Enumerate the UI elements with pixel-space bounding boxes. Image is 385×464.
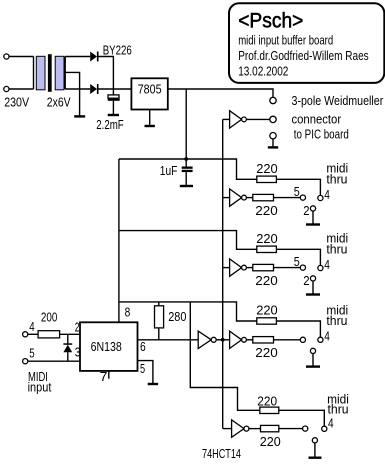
- svg-text:7: 7: [100, 369, 108, 384]
- wire block2 pin5: [274, 267, 301, 269]
- svg-text:2x6V: 2x6V: [47, 94, 71, 109]
- pin circle 2 block1: [310, 206, 315, 211]
- inverter U1E: [230, 331, 253, 348]
- svg-text:3-pole Weidmueller: 3-pole Weidmueller: [292, 93, 384, 108]
- node inverter junction dot: [221, 338, 225, 342]
- wire 7805 ground pin: [149, 110, 151, 126]
- wire +5V branch to block4: [190, 302, 259, 410]
- wire center tap: [65, 72, 79, 115]
- svg-text:6: 6: [140, 339, 146, 354]
- svg-text:5: 5: [294, 254, 300, 269]
- svg-text:4: 4: [29, 319, 34, 334]
- signal bus vertical: [222, 119, 224, 428]
- svg-text:input: input: [28, 380, 52, 395]
- transformer T1 secondary winding: [55, 56, 64, 90]
- ground block3: [306, 365, 320, 367]
- svg-text:midi input buffer board: midi input buffer board: [238, 33, 333, 48]
- connector pin signal circle: [270, 116, 276, 122]
- diode D3 protection: [63, 334, 72, 361]
- resistor R7 220 block3 bottom: [253, 337, 274, 343]
- regulator U2 7805 box: [131, 78, 167, 109]
- svg-text:2: 2: [303, 203, 309, 218]
- ground 7805: [145, 125, 155, 127]
- node +5V junction dot: [184, 157, 188, 161]
- inverter U1F: [223, 420, 261, 437]
- wire secondary bottom to diode D2: [65, 88, 90, 90]
- diode D2 BY226 bottom: [90, 84, 98, 94]
- wire pin7 stub: [108, 371, 110, 379]
- inverter U1B: [223, 189, 253, 206]
- svg-text:5: 5: [29, 346, 34, 361]
- pin circle 5 block1: [300, 195, 305, 200]
- ground capacitor C1: [108, 114, 119, 116]
- pin circle 2 block2: [310, 276, 315, 281]
- mains input terminal bottom: [4, 86, 9, 91]
- pin circle 4 block1: [318, 195, 323, 200]
- wire secondary side vertical: [64, 57, 66, 90]
- +5V left bus vertical: [118, 159, 120, 322]
- svg-text:220: 220: [256, 231, 278, 246]
- wire +5V rail 7805 output to connector: [168, 89, 273, 97]
- wire midi pin4 to R1: [28, 333, 38, 335]
- wire D2 output to 7805 input: [99, 88, 132, 90]
- title box: [229, 3, 384, 83]
- svg-text:8: 8: [125, 305, 131, 320]
- wire 7805 output drop to +5V node: [185, 89, 187, 159]
- svg-text:<Psch>: <Psch>: [238, 8, 303, 32]
- wire pin5 to gnd: [138, 361, 153, 384]
- capacitor C2 1uF: [182, 159, 193, 185]
- ground block2: [306, 293, 320, 295]
- wire secondary top to diode D1: [65, 56, 90, 58]
- ground connector: [268, 146, 278, 148]
- svg-text:74HCT14: 74HCT14: [202, 446, 241, 461]
- transformer T1 primary winding: [36, 56, 45, 90]
- optocoupler U3 6N138 box: [80, 322, 138, 371]
- svg-text:4: 4: [324, 257, 330, 272]
- wire mains bottom: [9, 88, 34, 90]
- resistor R5 220 block2 bottom: [253, 264, 274, 270]
- resistor R2 220 block1 top: [257, 176, 277, 182]
- ground center tap: [74, 115, 85, 117]
- inverter U1C: [223, 259, 253, 276]
- wire block3 gnd: [312, 354, 314, 367]
- wire block2 gnd: [312, 281, 314, 294]
- ground block4: [309, 457, 322, 459]
- svg-text:5: 5: [294, 184, 300, 199]
- svg-text:2.2mF: 2.2mF: [96, 117, 123, 132]
- wire block3 pin5: [274, 339, 301, 341]
- wire block1 pin4: [276, 179, 320, 195]
- ground pin5: [148, 383, 158, 385]
- svg-text:connector: connector: [292, 111, 342, 126]
- svg-text:2: 2: [75, 320, 80, 335]
- MIDI input pin 4 circle: [23, 332, 28, 337]
- svg-text:220: 220: [256, 161, 278, 176]
- resistor R4 220 block2 top: [257, 246, 277, 252]
- wire diode D1 output corner down: [99, 57, 114, 90]
- pin circle 2 block3: [310, 348, 315, 353]
- wire midi pin5 to 6N138 pin3: [28, 360, 80, 362]
- svg-text:5: 5: [140, 361, 145, 376]
- wire +5V feed block1: [119, 159, 257, 179]
- wire connector gnd: [272, 139, 274, 147]
- resistor R1 200: [38, 331, 60, 338]
- svg-text:4: 4: [328, 416, 334, 431]
- svg-text:thru: thru: [326, 172, 347, 187]
- svg-text:4: 4: [324, 329, 330, 344]
- pin circle 5 block4: [303, 426, 308, 431]
- resistor R3 220 block1 bottom: [253, 194, 274, 200]
- svg-text:230V: 230V: [4, 94, 29, 109]
- svg-text:200: 200: [41, 310, 57, 325]
- wire block2 pin4: [276, 249, 320, 265]
- wire +5V feed block3: [119, 302, 257, 321]
- svg-text:thru: thru: [328, 402, 349, 417]
- resistor R10 220 block4 bottom: [261, 425, 279, 431]
- pin circle 5 block2: [300, 265, 305, 270]
- ground capacitor C2: [180, 185, 193, 187]
- svg-text:1uF: 1uF: [160, 163, 178, 178]
- connector pin +5V circle: [270, 97, 276, 103]
- mains input terminal top: [4, 54, 9, 59]
- svg-text:7805: 7805: [138, 82, 162, 97]
- pin circle 4 block4: [322, 426, 327, 431]
- diode D1 BY226 top: [90, 52, 98, 62]
- resistor R6 220 block3 top: [257, 318, 277, 324]
- svg-text:to PIC board: to PIC board: [294, 127, 349, 142]
- MIDI input pin 5 circle: [23, 359, 28, 364]
- ground block1: [306, 223, 320, 225]
- wire block1 gnd: [312, 211, 314, 224]
- svg-text:Prof.dr.Godfried-Willem Raes: Prof.dr.Godfried-Willem Raes: [238, 48, 369, 63]
- svg-text:thru: thru: [326, 242, 347, 257]
- capacitor C1 2.2mF: [108, 89, 120, 114]
- wire primary side vertical: [33, 57, 35, 90]
- svg-text:220: 220: [255, 203, 277, 218]
- svg-text:13.02.2002: 13.02.2002: [238, 63, 288, 78]
- svg-text:220: 220: [255, 345, 277, 360]
- connector pin gnd circle: [270, 133, 276, 139]
- wire pin6 to inverter: [138, 339, 199, 341]
- wire R1 to 6N138 pin2: [60, 333, 80, 335]
- svg-text:220: 220: [256, 303, 278, 318]
- wire +5V feed block2: [119, 231, 257, 250]
- wire block4 pin5: [279, 428, 303, 430]
- pin circle 2 block4: [312, 438, 317, 443]
- inverter U1A: [223, 111, 270, 128]
- svg-text:4: 4: [324, 187, 330, 202]
- pin circle 4 block3: [318, 337, 323, 342]
- svg-text:6N138: 6N138: [91, 339, 122, 354]
- svg-text:BY226: BY226: [103, 42, 132, 57]
- pin circle 4 block2: [318, 265, 323, 270]
- svg-text:280: 280: [168, 309, 186, 324]
- wire mains top: [9, 56, 34, 58]
- svg-text:220: 220: [255, 273, 277, 288]
- resistor R9 220 block4 top: [260, 407, 279, 413]
- pin circle 5 block3: [300, 337, 305, 342]
- svg-text:220: 220: [260, 434, 281, 449]
- wire block4 gnd: [314, 443, 316, 457]
- svg-text:2: 2: [303, 273, 309, 288]
- inverter U1D: [198, 331, 229, 348]
- svg-text:thru: thru: [326, 313, 347, 328]
- wire block4 pin4: [279, 410, 325, 426]
- transformer T1 core: [48, 54, 52, 92]
- svg-text:220: 220: [257, 393, 277, 408]
- wire block3 pin4: [276, 321, 320, 337]
- svg-text:3: 3: [75, 345, 81, 360]
- wire block1 pin5: [274, 197, 301, 199]
- resistor R8 280 pullup: [155, 302, 164, 340]
